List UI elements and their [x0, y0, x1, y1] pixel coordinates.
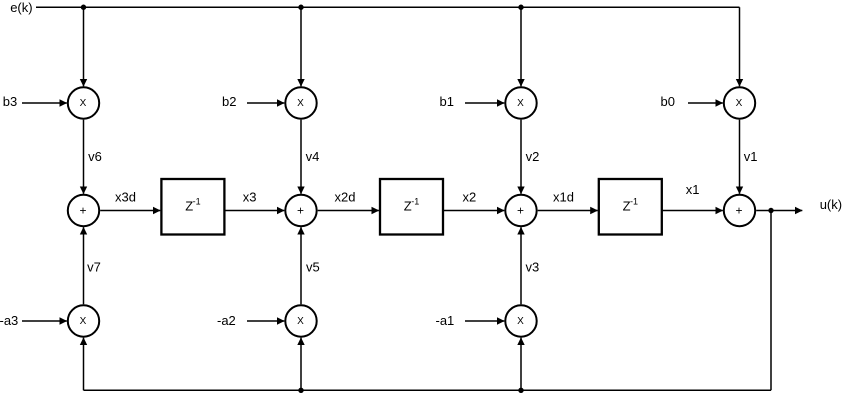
wire M7 output v3 up to adder A3 [520, 227, 522, 304]
wire M6 output v5 up to adder A2 [300, 227, 302, 304]
wire top horizontal bus from e(k) to b0 column [36, 6, 740, 8]
wire M5 output v7 up to adder A1 [83, 227, 85, 304]
wire M2 output v4 to adder A2 [300, 120, 302, 194]
wire feedback bottom bus [84, 389, 772, 391]
junction dot top bus column 2 [298, 5, 303, 10]
svg-text:x1d: x1d [553, 190, 574, 205]
wire M3 output v2 to adder A3 [520, 120, 522, 194]
svg-text:b3: b3 [3, 94, 17, 109]
wire A2 to delay Z2 (net x2d) [318, 210, 379, 212]
wire b2 into M2 [247, 102, 284, 104]
wire -a1 into M7 [465, 320, 504, 322]
wire -a3 into M5 [22, 320, 67, 322]
junction dot bottom bus column 2 [298, 388, 303, 393]
svg-text:v4: v4 [306, 149, 320, 164]
svg-text:-a2: -a2 [217, 313, 236, 328]
svg-text:Z-1: Z-1 [623, 197, 638, 214]
svg-text:+: + [79, 203, 86, 217]
wire b1 into M3 [465, 102, 504, 104]
svg-text:x2d: x2d [335, 190, 356, 205]
wire bottom bus up to multiplier -a2 [300, 338, 302, 391]
wire bottom bus up to multiplier -a1 [520, 338, 522, 391]
svg-text:x1: x1 [686, 182, 700, 197]
svg-text:u(k): u(k) [820, 197, 842, 212]
delay block Z2 [380, 179, 443, 235]
delay block Z3 [599, 179, 662, 235]
wire bottom bus up to multiplier -a3 [83, 338, 85, 391]
wire M4 output v1 to adder A4 [739, 120, 741, 194]
junction dot bottom bus column 3 [518, 388, 523, 393]
svg-text:e(k): e(k) [10, 0, 32, 15]
wire vertical drop to multiplier b2 [300, 7, 302, 86]
junction dot top bus column 3 [518, 5, 523, 10]
junction dot output node [768, 208, 773, 213]
multiplier M2 (b2) [285, 87, 316, 118]
svg-text:X: X [297, 98, 304, 109]
adder A4 [724, 195, 755, 226]
adder A3 [505, 195, 536, 226]
multiplier M6 (-a2) [285, 305, 316, 336]
wire vertical drop to multiplier b1 [520, 7, 522, 86]
svg-text:b0: b0 [661, 94, 675, 109]
wire A1 to delay Z1 (net x3d) [100, 210, 160, 212]
wire -a2 into M6 [247, 320, 284, 322]
svg-text:X: X [297, 316, 304, 327]
wire Z2 to A3 (net x2) [443, 210, 504, 212]
multiplier M5 (-a3) [68, 305, 99, 336]
svg-text:X: X [80, 98, 87, 109]
svg-text:X: X [517, 98, 524, 109]
svg-text:X: X [736, 98, 743, 109]
svg-text:v5: v5 [306, 260, 320, 275]
svg-text:v7: v7 [87, 260, 101, 275]
adder A1 [68, 195, 99, 226]
svg-text:+: + [735, 203, 742, 217]
svg-text:-a3: -a3 [0, 313, 18, 328]
svg-text:v2: v2 [526, 149, 540, 164]
wire vertical drop to multiplier b0 [739, 7, 741, 86]
adder A2 [285, 195, 316, 226]
svg-text:+: + [297, 203, 304, 217]
wire b0 into M4 [688, 102, 723, 104]
svg-text:v3: v3 [526, 260, 540, 275]
delay block Z1 [161, 179, 224, 235]
wire Z1 to A2 (net x3) [224, 210, 284, 212]
svg-text:X: X [517, 316, 524, 327]
wire vertical drop to multiplier b3 [83, 7, 85, 86]
wire Z3 to A4 (net x1) [662, 210, 723, 212]
svg-text:x3: x3 [243, 190, 257, 205]
wire A4 to output u(k) [756, 210, 802, 212]
svg-text:x2: x2 [463, 190, 477, 205]
wire A3 to delay Z3 (net x1d) [538, 210, 598, 212]
wire b3 into M1 [22, 102, 67, 104]
svg-text:Z-1: Z-1 [404, 197, 419, 214]
multiplier M3 (b1) [505, 87, 536, 118]
multiplier M1 (b3) [68, 87, 99, 118]
svg-text:Z-1: Z-1 [185, 197, 200, 214]
svg-text:x3d: x3d [115, 190, 136, 205]
svg-text:b2: b2 [222, 94, 236, 109]
svg-text:b1: b1 [440, 94, 454, 109]
junction dot top bus column 1 [81, 5, 86, 10]
svg-text:X: X [80, 316, 87, 327]
svg-text:v6: v6 [88, 149, 102, 164]
multiplier M7 (-a1) [505, 305, 536, 336]
wire M1 output v6 to adder A1 [83, 120, 85, 194]
multiplier M4 (b0) [724, 87, 755, 118]
svg-text:v1: v1 [744, 149, 758, 164]
svg-text:-a1: -a1 [436, 313, 455, 328]
svg-text:+: + [517, 203, 524, 217]
wire feedback vertical from output node down [770, 211, 772, 391]
